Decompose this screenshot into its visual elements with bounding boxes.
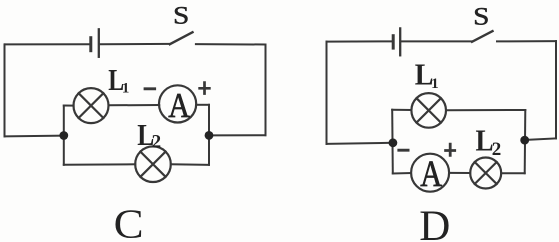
wire: D top-left segment (outer top wire to battery) [327, 40, 392, 42]
minus polarity mark of ammeter A2 [397, 149, 409, 152]
wire: D battery to switch [401, 40, 472, 42]
wire: D switch to top-right corner [497, 40, 556, 42]
wire: D box right corner to lamp L2 [501, 172, 525, 174]
wire: C bottom-right feed to node B [209, 134, 266, 136]
svg-text:A: A [168, 86, 190, 125]
minus polarity mark of ammeter A1 [144, 87, 157, 90]
lamp L1 (circle with X) [74, 88, 109, 123]
svg-text:A: A [420, 154, 442, 195]
ammeter A1 (circle) [159, 85, 196, 122]
wire: C top-left segment (outer top wire to battery) [5, 43, 89, 45]
plus polarity mark of ammeter A1 [198, 81, 210, 95]
wire: C bottom branch lamp L2 to box right [171, 163, 209, 166]
ammeter A2 (circle) [411, 154, 449, 192]
wire: C bottom-left feed to node A [5, 135, 64, 138]
node D2 (junction dot, D right) [520, 136, 529, 145]
wire: D ammeter to lamp L2 [449, 172, 470, 174]
wire: C switch to top-right corner [196, 43, 266, 45]
plus polarity mark of ammeter A2 [444, 143, 456, 157]
node D1 (junction dot, D left) [389, 138, 398, 147]
svg-text:2: 2 [492, 139, 502, 160]
switch S (open lever) [170, 32, 193, 44]
wire: C ammeter to box right [196, 104, 209, 106]
battery GB (cell) long positive plate [98, 29, 100, 57]
wire: C parallel-box left vertical [63, 106, 65, 165]
lamp L1 of D (circle with X) [411, 93, 446, 128]
battery GB2 (cell) short negative plate [392, 36, 395, 48]
svg-text:1: 1 [122, 80, 129, 96]
wire: C battery to switch [100, 43, 170, 45]
switch S2 (open lever) [472, 31, 493, 42]
wire: C left vertical of outer loop [4, 44, 6, 136]
node B (junction dot, C right) [205, 131, 214, 140]
wire: D bottom-left feed to node D1 [327, 143, 393, 144]
svg-text:C: C [114, 201, 144, 242]
wire: D box left corner to ammeter [393, 172, 411, 175]
wire: D parallel-box right vertical [524, 110, 527, 173]
svg-text:D: D [419, 203, 450, 242]
svg-text:1: 1 [431, 76, 439, 92]
wire: D right vertical of outer loop [555, 41, 557, 138]
wire: D bottom-right feed to node D2 [525, 138, 556, 140]
battery GB (cell) short negative plate [89, 38, 92, 51]
svg-text:2: 2 [152, 132, 162, 153]
wire: C parallel-box right vertical [208, 105, 210, 165]
wire: C bottom branch left to lamp L2 [64, 163, 136, 166]
wire: D parallel-box left vertical [391, 110, 394, 174]
wire: C right vertical of outer loop [265, 45, 267, 136]
battery GB2 (cell) long positive plate [399, 28, 401, 55]
lamp L2 of D (circle with X) [470, 158, 501, 189]
svg-text:S: S [173, 0, 189, 29]
wire: D L1 branch right segment [446, 109, 525, 111]
wire: D L1 branch left stub [392, 109, 411, 111]
wire: C lamp L1 to ammeter [109, 104, 160, 106]
wire: C stub node A to lamp L1 [64, 105, 74, 107]
node A (junction dot, C left) [59, 131, 68, 140]
wire: D left vertical of outer loop [326, 42, 328, 144]
svg-text:S: S [473, 2, 489, 31]
lamp L2 (circle with X) [135, 146, 171, 182]
